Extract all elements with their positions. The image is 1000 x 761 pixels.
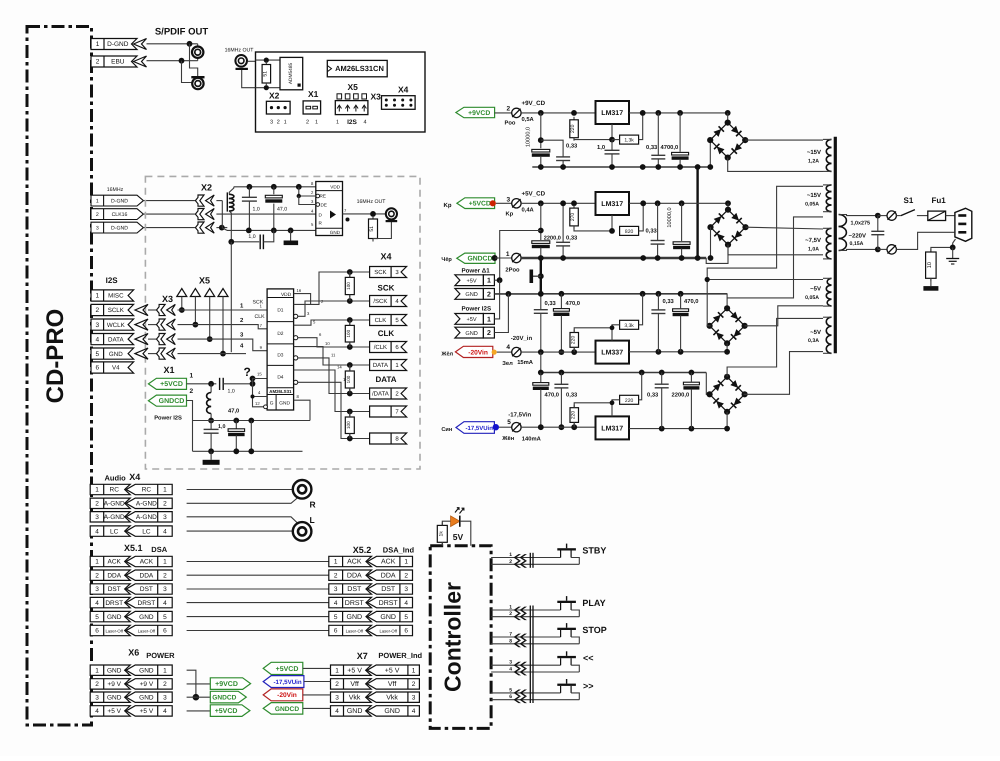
RCA jack L: [293, 522, 312, 541]
resistor 51 (module): [372, 216, 374, 219]
node S/PDIF hot junction: [187, 41, 193, 47]
wire X6 gnd tie: [187, 670, 196, 697]
wire w5 top to B4 top: [727, 318, 823, 376]
svg-text:2: 2: [163, 572, 167, 579]
svg-text:10: 10: [325, 341, 330, 346]
svg-text:VDD: VDD: [330, 185, 340, 190]
wire D-GND to J2 shield: [190, 44, 198, 76]
svg-text:0,33: 0,33: [566, 235, 578, 242]
svg-text:3: 3: [334, 586, 338, 593]
wire S/PDIF pin2: [147, 60, 198, 62]
wire U1 output pin 14: [294, 370, 350, 412]
label +5VCD out: [187, 710, 211, 712]
svg-text:1k: 1k: [439, 531, 445, 537]
svg-text:4: 4: [404, 600, 408, 607]
svg-text:5: 5: [404, 614, 408, 621]
svg-text:1: 1: [315, 120, 318, 126]
svg-text:DATA: DATA: [373, 362, 388, 369]
RCA jack 16MHz (module): [386, 208, 397, 219]
wire choke bottom to I2S gnd rail: [230, 242, 232, 352]
svg-text:2: 2: [306, 120, 309, 126]
svg-text:2: 2: [507, 106, 511, 113]
svg-text:+5VCD: +5VCD: [469, 201, 491, 208]
svg-text:3: 3: [509, 660, 512, 666]
label +9VCD: [456, 107, 495, 117]
connector X6 pin 4 +5 V: [90, 706, 130, 716]
connector X3 pair DATA: [157, 334, 166, 345]
svg-text:1: 1: [190, 373, 194, 380]
connector Audio X4 pin 2 A-GND: [90, 498, 130, 508]
svg-text:DDA: DDA: [347, 572, 362, 579]
svg-text:47,0: 47,0: [277, 207, 287, 213]
wire controller to button &gt;&gt; pin 5: [491, 692, 560, 694]
connector I2S pin 5 GND: [91, 348, 134, 359]
capacitor 47,0 (X1 lower polarized): [235, 421, 237, 429]
svg-text:1: 1: [95, 667, 99, 674]
fuse circle mains bottom: [878, 248, 887, 250]
svg-text:51: 51: [369, 226, 375, 232]
rail row1 return: [532, 166, 710, 168]
node S/PDIF gnd junction: [179, 58, 185, 64]
svg-text:3: 3: [404, 586, 408, 593]
svg-text:S/PDIF OUT: S/PDIF OUT: [155, 27, 209, 38]
earth node: [953, 239, 956, 247]
svg-text:3: 3: [163, 586, 167, 593]
chevrons PLAY: [514, 607, 522, 614]
svg-text:3: 3: [507, 196, 511, 203]
connector X4 out 2 /DATA: [350, 393, 370, 395]
svg-text:1,2A: 1,2A: [808, 158, 819, 164]
connector X4 out 6 /CLK: [350, 346, 370, 348]
svg-text:X6: X6: [128, 648, 139, 658]
svg-text:0,3A: 0,3A: [808, 338, 819, 344]
fuse 3el: [497, 351, 512, 353]
connector Power I2S GND: [455, 327, 484, 338]
LM317 row4 adj: [611, 403, 613, 417]
svg-text:-17,5VUin: -17,5VUin: [273, 679, 301, 686]
svg-text:2: 2: [163, 681, 167, 688]
svg-text:14: 14: [337, 365, 342, 370]
svg-text:X7: X7: [357, 651, 368, 661]
bridge rectifier B2: [727, 203, 729, 209]
svg-text:MISC: MISC: [108, 293, 124, 300]
svg-text:LC: LC: [110, 528, 119, 535]
svg-text:G: G: [270, 401, 274, 407]
bridge rectifier B3: [726, 294, 728, 309]
svg-text:51: 51: [263, 71, 269, 77]
svg-text:S1: S1: [904, 196, 914, 205]
pushbutton &gt;&gt;: [566, 679, 568, 684]
svg-text:+5 V: +5 V: [140, 708, 154, 715]
resistor 100 term 4: [347, 409, 353, 415]
wire +5V D1: [494, 279, 499, 281]
wire RC to jack R: [187, 489, 293, 491]
svg-text:A-GND: A-GND: [136, 514, 157, 521]
connector I2S pin 2 SCLK: [91, 304, 134, 315]
svg-text:4: 4: [412, 708, 416, 715]
label +9VCD out: [187, 683, 211, 685]
svg-text:LM317: LM317: [601, 201, 623, 208]
svg-text:Power I2S: Power I2S: [154, 415, 182, 422]
wire controller to button PLAY pin 2: [491, 616, 579, 618]
svg-text:CLK: CLK: [255, 314, 266, 320]
svg-text:1,0: 1,0: [248, 234, 255, 240]
inductor X1 (47,0 choke): [210, 384, 212, 393]
wire VDD jog to RE/DE: [299, 187, 316, 196]
connector X3 pair GND: [157, 348, 166, 359]
test point X5-4 arrow: [218, 289, 228, 297]
svg-text:15: 15: [257, 372, 262, 377]
wire U1 output pin 10: [294, 347, 350, 365]
wire DSA DDA: [187, 574, 329, 576]
wire U1 output pin 5: [294, 320, 350, 325]
svg-text:LM317: LM317: [601, 425, 623, 432]
rail row4 top: [540, 352, 542, 372]
svg-text:5: 5: [509, 687, 512, 693]
wire U1 output pin 2: [294, 272, 350, 304]
svg-text:3: 3: [95, 694, 99, 701]
U1 G/enable wires: [253, 384, 268, 397]
svg-text:GND: GND: [347, 614, 363, 621]
LM337 adj: [611, 328, 613, 341]
svg-text:0,33: 0,33: [646, 144, 658, 151]
label +5VCD to X7: [263, 662, 303, 674]
pushbutton STBY: [566, 544, 568, 549]
digital interface dashed box: [145, 176, 420, 469]
svg-text:2: 2: [163, 501, 167, 508]
svg-text:~7,5V: ~7,5V: [805, 237, 821, 244]
svg-text:4: 4: [163, 708, 167, 715]
svg-text:Pоо: Pоо: [505, 121, 516, 127]
svg-text:GNDCD: GNDCD: [275, 706, 299, 713]
svg-text:V4: V4: [112, 365, 120, 372]
svg-text:CLK16: CLK16: [112, 212, 128, 218]
IC clock buffer U2: [316, 182, 343, 236]
svg-text:PLAY: PLAY: [582, 598, 605, 608]
svg-text:SCK: SCK: [378, 284, 395, 293]
svg-text:X3: X3: [162, 294, 173, 304]
svg-text:<<: <<: [583, 653, 594, 663]
chevrons STBY: [514, 554, 522, 561]
svg-text:GND: GND: [139, 667, 154, 674]
svg-text:1: 1: [412, 667, 416, 674]
svg-text:2: 2: [96, 212, 99, 218]
svg-text:4: 4: [335, 708, 339, 715]
svg-text:0,33: 0,33: [566, 143, 578, 150]
svg-text:Audio: Audio: [105, 474, 127, 483]
svg-text:~15V: ~15V: [807, 149, 821, 156]
wire X2 row1 to choke: [216, 200, 222, 202]
svg-text:L: L: [310, 515, 315, 525]
connector X5.2 pin 4 DRST: [329, 597, 372, 607]
svg-text:0,4A: 0,4A: [522, 207, 535, 214]
svg-text:1: 1: [334, 559, 338, 566]
connector 16MHz pin 2 CLK16: [91, 209, 143, 220]
connector X4 out 5 CLK: [350, 319, 370, 321]
wire GND D1: [494, 293, 540, 295]
svg-text:ADM5485: ADM5485: [288, 63, 294, 85]
svg-text:DDA: DDA: [140, 572, 154, 579]
resistor 100 term 1: [347, 269, 353, 275]
svg-text:+5VCD: +5VCD: [215, 708, 238, 715]
svg-text:+9V_CD: +9V_CD: [522, 100, 546, 107]
svg-text:1,0: 1,0: [597, 144, 605, 151]
svg-text:SCK: SCK: [253, 300, 264, 306]
wire controller to button &lt;&lt; pin 4: [491, 671, 579, 673]
svg-text:140mA: 140mA: [522, 436, 542, 443]
resistor 270 row2: [573, 205, 575, 208]
rail +5V_CD out: [629, 202, 728, 204]
svg-text:AM26LS31CN: AM26LS31CN: [335, 64, 384, 73]
svg-text:16MHz OUT: 16MHz OUT: [225, 48, 255, 54]
wire X2 row2 CLK16 to buffer D input: [216, 213, 315, 215]
U1 GND pin wire: [294, 400, 310, 420]
rail -17,5V out: [629, 428, 727, 430]
svg-text:DST: DST: [347, 586, 362, 593]
svg-text:6: 6: [334, 628, 338, 635]
connector X7 pin 1 +5 V: [331, 665, 372, 675]
svg-text:AM26LS31: AM26LS31: [269, 389, 292, 394]
connector S/PDIF pin 1 D-GND: [91, 39, 137, 50]
rail VDD filter top: [234, 186, 316, 188]
wire B3 bottom to -20 rail: [726, 343, 728, 352]
resistor 3,3k row3: [620, 320, 639, 329]
svg-text:4: 4: [163, 600, 167, 607]
svg-text:16MHz OUT: 16MHz OUT: [357, 199, 387, 205]
connector X6 pin 1 GND: [90, 665, 130, 675]
wire to RCA jack J1: [197, 44, 199, 47]
connector X5.2 pin 2 DDA: [329, 570, 372, 580]
svg-text:470,0: 470,0: [545, 392, 560, 399]
svg-text:+5VCD: +5VCD: [276, 666, 299, 673]
wire controller to button STBY pin 1: [491, 557, 560, 559]
svg-text:DSA_Ind: DSA_Ind: [383, 546, 415, 555]
chevrons STOP: [514, 634, 522, 641]
svg-text:3: 3: [270, 120, 273, 126]
connector X5.2 pin 3 DST: [329, 584, 372, 594]
svg-text:DATA: DATA: [375, 375, 396, 384]
wire 16MHz CLK16 to X2: [143, 213, 195, 215]
resistor 51 (termination): [265, 62, 267, 65]
svg-text:2: 2: [509, 559, 512, 565]
svg-text:Kp: Kp: [444, 202, 452, 209]
svg-text:0,05A: 0,05A: [805, 295, 819, 301]
svg-text:220: 220: [570, 124, 576, 133]
svg-text:GND: GND: [380, 614, 396, 621]
svg-text:3: 3: [163, 514, 167, 521]
svg-text:-20Vin: -20Vin: [468, 349, 488, 356]
rail +5V unregulated: [521, 202, 595, 204]
label GNDCD to X7: [263, 703, 303, 715]
svg-text:-20Vin: -20Vin: [277, 692, 297, 699]
connector X7 pin 4 GND: [331, 706, 372, 716]
wire S/PDIF pin1 to RCA: [147, 43, 198, 45]
svg-text:100: 100: [346, 282, 351, 290]
connector X5.1 pin 4 DRST: [90, 597, 130, 607]
wire 16MHz D-GND to X2: [143, 200, 195, 202]
svg-text:12: 12: [255, 401, 260, 406]
svg-text:+5V_CD: +5V_CD: [522, 191, 546, 198]
svg-text:3: 3: [95, 514, 99, 521]
svg-text:+5V: +5V: [467, 278, 477, 284]
wire U2 output: [343, 213, 386, 215]
svg-text:Power Δ1: Power Δ1: [462, 267, 491, 274]
connector 16MHz pin 3 D-GND: [91, 222, 143, 233]
svg-text:Чёр: Чёр: [441, 257, 452, 263]
svg-text:47,0: 47,0: [228, 408, 239, 415]
RCA jack 16MHz OUT: [235, 55, 247, 67]
tie wire rails X1: [250, 421, 252, 452]
heavy gnd drop row1-row2: [696, 167, 698, 258]
resistor 10 (earth): [930, 249, 932, 252]
connector Audio X4 pin 3 A-GND: [90, 512, 130, 522]
node X1 +5 junction: [250, 381, 256, 387]
rail GNDCD: [521, 257, 706, 259]
connector X6 pin 3 GND: [90, 692, 130, 702]
IC ADM5485: [280, 57, 303, 89]
rail +9V unregulated: [521, 112, 595, 114]
svg-text:+5 V: +5 V: [385, 667, 400, 674]
wire jack to ADM5485: [256, 59, 281, 61]
svg-text:1,3k: 1,3k: [624, 138, 634, 144]
connector X7 pin 2 Vff: [331, 679, 372, 689]
wire w5 bottom to B4 right: [744, 352, 823, 395]
wire controller to button STOP pin 7: [491, 636, 560, 638]
svg-text:GNDCD: GNDCD: [467, 256, 492, 263]
svg-text:1,0: 1,0: [228, 389, 235, 395]
svg-text:GND: GND: [139, 614, 154, 621]
wire 16MHz jack to board: [248, 60, 256, 62]
svg-text:X4: X4: [380, 252, 391, 262]
svg-text:2: 2: [95, 681, 99, 688]
wire GNDCD down: [187, 401, 193, 452]
svg-text:4: 4: [506, 344, 510, 351]
transformer secondary winding 4 ~5V 0,05A: [827, 278, 831, 285]
svg-text:Син: Син: [441, 427, 452, 433]
wire GND to gnd rail: [178, 353, 232, 355]
svg-text:5: 5: [507, 419, 511, 426]
connector I2S pin 4 DATA: [91, 334, 134, 345]
svg-text:D-GND: D-GND: [111, 199, 128, 205]
svg-text:DST: DST: [140, 586, 153, 593]
svg-text:Зел: Зел: [502, 360, 513, 367]
label -17,5VUin to X7: [263, 676, 304, 688]
svg-text:GND: GND: [347, 708, 363, 715]
svg-text:GND: GND: [465, 292, 477, 298]
connector I2S pin 6 V4: [91, 362, 134, 373]
svg-text:1: 1: [336, 120, 339, 126]
connector X2 pair row 3: [195, 222, 204, 233]
svg-text:4: 4: [95, 528, 99, 535]
heavy gnd drop to row3: [540, 258, 542, 294]
svg-text:/CLK: /CLK: [374, 344, 387, 351]
wire controller to button &lt;&lt; pin 3: [491, 664, 560, 666]
svg-text:0,5A: 0,5A: [522, 116, 535, 123]
svg-text:5: 5: [95, 614, 99, 621]
svg-text:STBY: STBY: [582, 546, 606, 556]
wire I2S WCLK to X3: [148, 324, 157, 326]
wire +5 to U1 pin15: [253, 379, 268, 384]
wire A-GND2 to jack R: [187, 497, 299, 503]
ground rail X1: [193, 450, 303, 452]
svg-text:100: 100: [346, 329, 351, 337]
resistor 1,3k: [620, 135, 639, 144]
svg-text:1: 1: [509, 552, 512, 558]
pushbutton &lt;&lt;: [566, 651, 568, 656]
wire 220 to adj net row3: [574, 328, 612, 333]
svg-text:>>: >>: [583, 681, 594, 691]
earth ground symbol: [952, 247, 954, 258]
svg-text:1: 1: [163, 667, 167, 674]
wire U1 output pin 6: [294, 336, 298, 340]
connector Audio X4 pin 4 LC: [90, 526, 130, 536]
svg-text:3: 3: [96, 226, 99, 232]
svg-text:DDA: DDA: [107, 572, 121, 579]
svg-text:D-GND: D-GND: [107, 41, 129, 48]
svg-text:~15V: ~15V: [807, 192, 821, 199]
svg-text:5: 5: [163, 614, 167, 621]
svg-text:-17,5VUin: -17,5VUin: [466, 425, 494, 432]
test point X5-1 arrow: [177, 289, 187, 297]
svg-text:X4: X4: [398, 85, 409, 95]
svg-text:STOP: STOP: [582, 625, 606, 635]
ground bar (earth resistor): [930, 278, 932, 286]
svg-text:2: 2: [404, 572, 408, 579]
connector X2 pair row 1: [195, 195, 204, 206]
svg-text:11: 11: [331, 352, 336, 357]
svg-text:I2S: I2S: [347, 119, 357, 126]
svg-text:220: 220: [570, 411, 576, 420]
wire +5VCD: [187, 383, 217, 385]
svg-text:3: 3: [412, 694, 416, 701]
svg-text:LM317: LM317: [601, 110, 623, 117]
svg-text:+9 V: +9 V: [140, 681, 154, 688]
wire U1 output pin 3: [294, 314, 298, 318]
svg-text:GNDCD: GNDCD: [212, 695, 236, 702]
svg-text:X3: X3: [371, 92, 382, 102]
connector X5.1 pin 3 DST: [90, 584, 130, 594]
svg-text:X2: X2: [201, 183, 212, 193]
wire B4 bottom to rail: [726, 412, 728, 429]
chevrons &lt;&lt;: [514, 662, 522, 669]
wire B2 AC to winding3: [746, 227, 824, 229]
regulator LM317 row1: [596, 101, 630, 124]
svg-text:10000,0: 10000,0: [667, 207, 673, 227]
wire 16MHz D-GND to X2: [143, 227, 195, 229]
svg-text:2: 2: [334, 572, 338, 579]
button bus bars: [529, 553, 531, 568]
pushbutton STOP: [566, 623, 568, 628]
capacitor 47,0 (filter, polarized): [273, 187, 275, 195]
wire +5V feed to power headers: [538, 228, 544, 234]
svg-text:3: 3: [95, 586, 99, 593]
resistor 100 term 3: [347, 362, 353, 368]
connector X7 pin 3 Vkk: [331, 692, 372, 702]
svg-text:-17,5Vin: -17,5Vin: [508, 412, 531, 419]
wire I2S DATA to X3: [148, 338, 157, 340]
wire DATA to U1 pin9: [178, 339, 268, 351]
svg-text:1: 1: [96, 41, 100, 48]
svg-text:1: 1: [487, 278, 491, 285]
svg-text:+9VCD: +9VCD: [468, 110, 490, 117]
capacitor 1,0 (filter): [248, 187, 250, 198]
svg-text:ACK: ACK: [347, 559, 362, 566]
svg-text:DDA: DDA: [381, 572, 396, 579]
svg-text:1,0: 1,0: [253, 207, 260, 213]
svg-text:Vff: Vff: [350, 680, 358, 688]
svg-text:D3: D3: [277, 353, 283, 359]
rail row3 top gnd: [541, 293, 728, 295]
